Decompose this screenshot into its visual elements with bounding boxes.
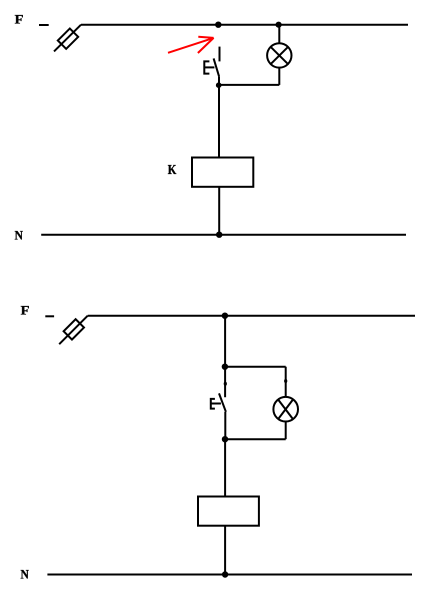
svg-text:N: N <box>15 228 23 242</box>
svg-text:F: F <box>21 304 30 318</box>
svg-text:N: N <box>21 567 29 581</box>
svg-text:F: F <box>15 13 24 27</box>
svg-text:K: K <box>168 162 177 177</box>
